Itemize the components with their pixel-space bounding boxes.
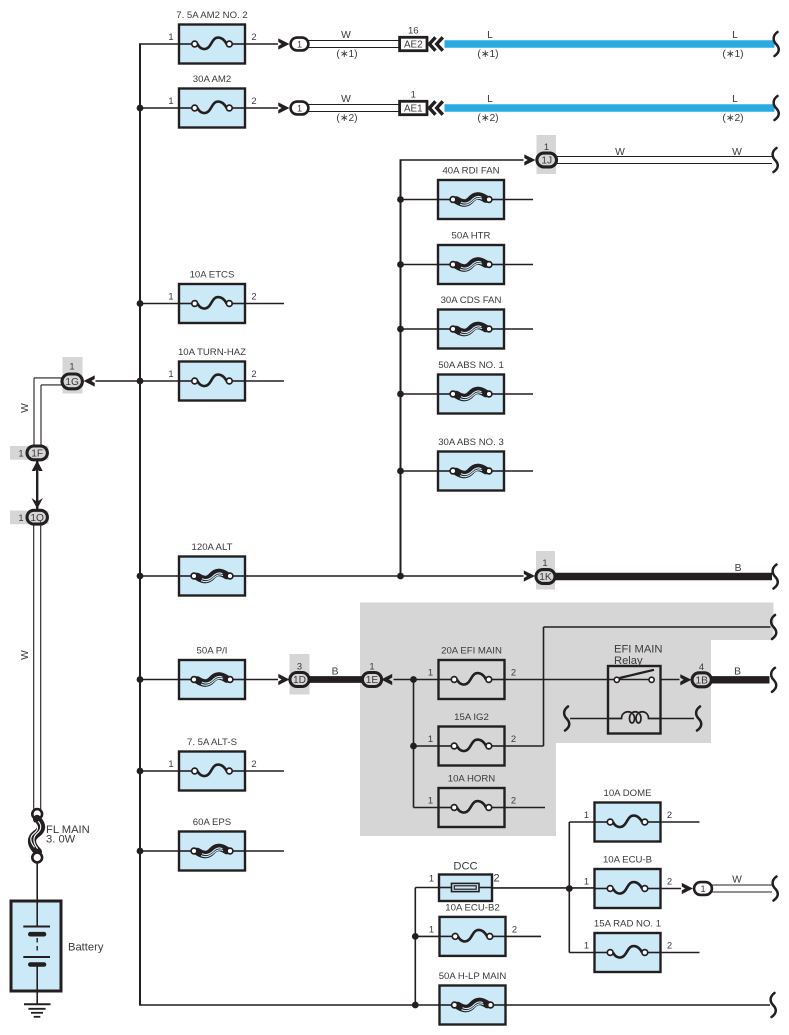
wire 7.5A AM2 NO.2 pin2 to connector (245, 43, 278, 45)
wire DCC pin2 to 10A ECU-B pin1 (492, 887, 595, 889)
svg-text:4: 4 (699, 661, 704, 672)
svg-text:1: 1 (429, 873, 434, 884)
fuse 40A RDI FAN (438, 166, 504, 220)
relay switch contacts (617, 679, 652, 681)
svg-text:50A ABS NO. 1: 50A ABS NO. 1 (438, 360, 504, 371)
svg-text:(∗1): (∗1) (477, 49, 498, 60)
wire W from 1G down to 1F (34, 377, 62, 379)
junction bus2/50A ABS NO. 1 (397, 391, 404, 398)
wire main battery bus vertical (139, 44, 141, 1005)
svg-text:1: 1 (18, 448, 23, 459)
junction bus2/30A ABS NO. 3 (397, 468, 404, 475)
connector 1J (537, 153, 557, 167)
wire DOME column vertical (568, 822, 570, 953)
wire 10A ETCS pin2 stub (245, 303, 284, 305)
svg-text:1: 1 (69, 361, 74, 372)
connector 1D (290, 673, 309, 687)
svg-text:10A HORN: 10A HORN (448, 774, 496, 785)
wire bus2 to fuse 40A RDI FAN (401, 199, 439, 201)
fuse 50A H-LP MAIN (439, 971, 507, 1025)
wire bus2 to fuse 30A CDS FAN (401, 328, 439, 330)
wire bus2 to fuse 30A ABS NO. 3 (401, 470, 439, 472)
svg-text:15A IG2: 15A IG2 (454, 712, 489, 723)
wire bus1 to fuse 50A P/I (140, 679, 179, 681)
svg-text:W: W (732, 147, 742, 158)
fuse 30A AM2 (168, 74, 256, 128)
wire W to junction AE2 (row1) (309, 40, 400, 42)
svg-text:B: B (735, 563, 742, 574)
fuse 120A ALT (179, 542, 245, 596)
connector 1Q (27, 510, 47, 524)
svg-text:W: W (20, 650, 31, 660)
svg-text:2: 2 (511, 795, 516, 806)
wire relay output to 1B (661, 679, 680, 681)
wire relay coil left lead (570, 718, 608, 720)
wire bus1 to fuse 120A ALT (140, 575, 179, 577)
svg-text:AE1: AE1 (404, 103, 423, 114)
continuation squiggle (1J row) (773, 148, 778, 172)
wire L blue (row2) (445, 104, 775, 111)
connector 1F (27, 446, 47, 460)
shaded engine-room relay block region (360, 603, 774, 837)
svg-text:30A ABS NO. 3: 30A ABS NO. 3 (438, 437, 504, 448)
wire 30A AM2 pin2 to connector (245, 107, 278, 109)
svg-text:1: 1 (168, 31, 173, 42)
svg-text:1: 1 (428, 795, 433, 806)
wire 10A ECU-B2 pin2 stub (506, 935, 542, 937)
relay coil (608, 712, 661, 723)
svg-text:1F: 1F (31, 449, 43, 460)
svg-text:1: 1 (584, 809, 589, 820)
continuation squiggle (row2) (774, 96, 779, 120)
arrow into connector 1J (524, 154, 535, 165)
connector 1Q gray backing (10, 511, 49, 525)
svg-text:1: 1 (297, 104, 302, 114)
wire branch to 10A DOME pin1 (569, 821, 594, 823)
connector 1 (row1) (291, 38, 309, 51)
svg-text:EFI MAIN: EFI MAIN (614, 644, 662, 656)
wire B thick (1K row) (555, 573, 772, 580)
fusible link FL MAIN 3.0W (31, 809, 90, 862)
svg-text:50A HTR: 50A HTR (452, 231, 491, 242)
wire EFI branch vertical (413, 680, 415, 808)
wire 7.5A ALT-S pin2 stub (245, 770, 284, 772)
wire B between 1D and 1E (310, 676, 364, 683)
wire W from ECU-B connector (712, 884, 772, 886)
svg-text:W: W (20, 403, 31, 413)
svg-text:15A RAD NO. 1: 15A RAD NO. 1 (594, 919, 661, 930)
fuse 20A EFI MAIN (428, 646, 516, 700)
svg-text:(∗2): (∗2) (336, 113, 357, 124)
fuse 30A ABS NO. 3 (438, 437, 504, 491)
wire second bus vertical (400, 160, 402, 576)
arrow into connector 1 (row1) (278, 38, 289, 49)
fuse 10A ECU-B (584, 855, 672, 909)
continuation squiggle (ECU-B row) (773, 877, 778, 901)
relay EFI MAIN Relay (608, 644, 662, 734)
wire 50A HTR output stub (504, 264, 533, 266)
svg-text:10A ETCS: 10A ETCS (190, 270, 235, 281)
svg-text:2: 2 (251, 291, 256, 302)
fuse 15A IG2 (428, 712, 516, 766)
svg-text:2: 2 (493, 873, 499, 885)
junction EFI branch top (410, 676, 417, 683)
fuse 50A ABS NO. 1 (438, 360, 504, 414)
svg-text:2: 2 (251, 758, 256, 769)
svg-text:30A CDS FAN: 30A CDS FAN (441, 295, 502, 306)
svg-text:W: W (732, 875, 742, 886)
connector 1J gray backing (537, 135, 557, 174)
junction bus2/40A RDI FAN (397, 196, 404, 203)
svg-text:2: 2 (667, 940, 672, 951)
arrow into connector 1 (row2) (278, 102, 289, 113)
wire 15A RAD NO.1 pin2 stub (661, 952, 700, 954)
svg-text:1: 1 (428, 733, 433, 744)
wire bus1 to fuse 60A EPS (140, 850, 179, 852)
svg-text:AE2: AE2 (404, 39, 423, 50)
wire W from 1Q down to FL MAIN (33, 525, 35, 811)
continuation squiggle (row1) (774, 32, 779, 56)
connector 1G gray backing (63, 357, 83, 394)
wire 10A DOME pin2 stub (661, 821, 700, 823)
svg-text:W: W (341, 94, 351, 105)
wire bus1 to fuse 10A TURN-HAZ pin1 (140, 380, 179, 382)
svg-text:10A ECU-B2: 10A ECU-B2 (445, 902, 499, 913)
svg-text:2: 2 (251, 95, 256, 106)
svg-text:1J: 1J (541, 156, 552, 167)
circuit breaker DCC (429, 861, 500, 902)
connector 1K (536, 570, 555, 584)
svg-text:B: B (332, 667, 339, 678)
junction bus1/120A ALT (137, 573, 144, 580)
continuation squiggle (1B row) (771, 668, 776, 692)
fuse 30A CDS FAN (438, 295, 504, 349)
wire 15A IG2 pin2 up and right (505, 745, 544, 747)
fuse 10A DOME (584, 788, 672, 842)
connector 1E (362, 673, 381, 687)
wire W from 1J (557, 156, 772, 158)
fuse 10A TURN-HAZ (168, 347, 256, 401)
svg-text:120A ALT: 120A ALT (192, 542, 233, 553)
svg-text:1: 1 (544, 141, 549, 152)
connector 1 (row2) (291, 102, 309, 115)
svg-text:1D: 1D (293, 675, 306, 686)
svg-text:Relay: Relay (614, 655, 643, 667)
svg-text:1: 1 (297, 40, 302, 50)
svg-text:40A RDI FAN: 40A RDI FAN (442, 166, 499, 177)
svg-text:7. 5A ALT-S: 7. 5A ALT-S (187, 737, 237, 748)
svg-text:L: L (732, 30, 738, 41)
wire 50A ABS NO. 1 output stub (504, 393, 533, 395)
svg-text:1: 1 (700, 884, 705, 894)
svg-text:60A EPS: 60A EPS (193, 817, 231, 828)
wire W to junction AE1 (row2) (309, 104, 400, 106)
connector 1D gray backing (290, 654, 310, 695)
arrow into connector 1B (680, 674, 691, 685)
svg-text:2: 2 (667, 876, 672, 887)
junction bus1/10A ETCS (137, 300, 144, 307)
wire FL MAIN to battery (36, 863, 38, 901)
svg-text:2: 2 (251, 368, 256, 379)
svg-text:(∗2): (∗2) (477, 113, 498, 124)
junction bus2 bottom / 120A ALT output (397, 573, 404, 580)
wire 50A P/I output to 1D (245, 679, 278, 681)
svg-text:2: 2 (667, 809, 672, 820)
svg-text:1: 1 (428, 667, 433, 678)
svg-text:3. 0W: 3. 0W (46, 834, 76, 846)
chevrons AE2 (429, 37, 435, 50)
arrow into connector 1E (381, 674, 392, 685)
connector 1B (692, 673, 711, 687)
double arrow between 1F and 1Q (36, 461, 38, 509)
junction bus1/10A TURN-HAZ (137, 378, 144, 385)
junction bus1/30A AM2 (137, 105, 144, 112)
ground (24, 1004, 51, 1017)
wire bus1 to fuse 10A ETCS pin1 (140, 303, 179, 305)
svg-text:2: 2 (251, 31, 256, 42)
fuse 10A HORN (428, 774, 516, 828)
svg-text:16: 16 (408, 25, 419, 36)
continuation squiggle (1K row) (773, 565, 778, 589)
wire bus1 bottom to fuse 50A H-LP MAIN (139, 1004, 440, 1006)
svg-text:2: 2 (511, 667, 516, 678)
wire 40A RDI FAN output stub (504, 199, 533, 201)
connector 1K gray backing (536, 551, 555, 590)
junction bus1/60A EPS (137, 848, 144, 855)
svg-text:50A H-LP MAIN: 50A H-LP MAIN (439, 971, 507, 982)
wire bus1 to fuse 7.5A AM2 NO.2 pin1 (139, 43, 179, 45)
fuse 7. 5A ALT-S (168, 737, 256, 791)
wire bus2 top to connector 1J (400, 159, 524, 161)
svg-text:7. 5A AM2 NO. 2: 7. 5A AM2 NO. 2 (176, 10, 247, 21)
fuse 50A P/I (179, 646, 245, 700)
junction bus1/50A P/I (137, 676, 144, 683)
battery (11, 901, 104, 1004)
svg-text:1: 1 (542, 557, 547, 568)
wire 50A H-LP MAIN output (506, 1004, 771, 1006)
arrow into connector 1 (ECU-B) (682, 883, 693, 894)
wire 60A EPS output stub (245, 850, 284, 852)
svg-text:1E: 1E (366, 675, 379, 686)
wire bus2 to fuse 50A HTR (401, 264, 439, 266)
wire branch to 15A RAD NO.1 pin1 (569, 952, 594, 954)
svg-text:1: 1 (429, 923, 434, 934)
svg-text:(∗2): (∗2) (722, 113, 743, 124)
junction bus2/50A HTR (397, 261, 404, 268)
junction DCC branch / ECU-B2 (412, 933, 419, 940)
junction bottom wire / DCC branch (412, 1002, 419, 1009)
continuation squiggle (H-LP row) (771, 993, 776, 1017)
svg-text:(∗1): (∗1) (722, 49, 743, 60)
continuation squiggle (IG2 wire) (771, 615, 776, 639)
junction DOME column / ECU-B row (566, 885, 573, 892)
fuse 60A EPS (179, 817, 245, 871)
wire branch to 10A HORN pin1 (414, 807, 439, 809)
fuse 7. 5A AM2 NO. 2 (168, 10, 256, 64)
svg-text:L: L (487, 94, 493, 105)
wire B thick from 1B (711, 676, 770, 683)
junction connector AE2 (400, 25, 427, 50)
svg-text:50A P/I: 50A P/I (197, 646, 228, 657)
wire relay coil right lead (661, 718, 695, 720)
fuse 15A RAD NO. 1 (584, 919, 672, 973)
wire bus1 to fuse 7.5A ALT-S pin1 (140, 770, 179, 772)
svg-text:30A AM2: 30A AM2 (193, 74, 231, 85)
wire 1E to 20A EFI MAIN pin1 (394, 679, 439, 681)
svg-text:3: 3 (297, 661, 302, 672)
svg-text:1K: 1K (539, 572, 552, 583)
arrow into connector 1K (524, 570, 535, 581)
wire 10A ECU-B pin2 to connector (661, 888, 682, 890)
fuse 10A ETCS (168, 270, 256, 324)
connector 1G (62, 374, 82, 389)
fuse 50A HTR (438, 231, 504, 285)
wire 120A ALT output to 1K (245, 575, 524, 577)
svg-text:(∗1): (∗1) (336, 49, 357, 60)
svg-text:B: B (734, 667, 741, 678)
wire bus1 to connector 1G arrow (96, 380, 141, 382)
connector 1F gray backing (10, 446, 49, 460)
wire L blue (row1) (445, 40, 775, 47)
svg-text:1: 1 (584, 940, 589, 951)
wire 10A HORN pin2 stub (505, 807, 546, 809)
svg-text:1: 1 (584, 876, 589, 887)
svg-text:10A TURN-HAZ: 10A TURN-HAZ (178, 347, 246, 358)
wire 30A ABS NO. 3 output stub (504, 470, 533, 472)
continuation squiggle (coil left) (564, 707, 569, 731)
svg-text:1: 1 (168, 758, 173, 769)
svg-text:20A EFI MAIN: 20A EFI MAIN (441, 646, 502, 657)
junction bus2/30A CDS FAN (397, 326, 404, 333)
svg-text:W: W (615, 147, 625, 158)
wire DCC branch vertical (414, 888, 416, 1006)
wire branch to 10A ECU-B2 pin1 (415, 935, 439, 937)
svg-text:10A DOME: 10A DOME (604, 788, 652, 799)
svg-text:Battery: Battery (68, 942, 104, 954)
svg-text:1: 1 (168, 368, 173, 379)
svg-text:2: 2 (511, 733, 516, 744)
wire branch to 15A IG2 pin1 (414, 745, 439, 747)
svg-text:1: 1 (369, 661, 374, 672)
svg-text:1G: 1G (65, 377, 79, 388)
svg-text:1: 1 (411, 89, 416, 100)
svg-text:1Q: 1Q (30, 513, 44, 524)
wire bus2 to fuse 50A ABS NO. 1 (401, 393, 439, 395)
svg-text:L: L (487, 30, 493, 41)
junction connector AE1 (400, 89, 427, 114)
svg-text:L: L (732, 94, 738, 105)
wire 30A CDS FAN output stub (504, 328, 533, 330)
arrow into connector 1G (84, 375, 95, 386)
svg-text:1: 1 (168, 95, 173, 106)
wire 10A TURN-HAZ pin2 stub (245, 380, 284, 382)
continuation squiggle (coil right) (696, 707, 701, 731)
svg-text:10A ECU-B: 10A ECU-B (603, 855, 652, 866)
svg-text:W: W (341, 30, 351, 41)
wire branch to DCC pin1 (415, 887, 439, 889)
junction EFI branch / 15A IG2 (410, 743, 417, 750)
svg-text:1: 1 (168, 291, 173, 302)
arrow into connector 1D (278, 674, 289, 685)
svg-text:DCC: DCC (453, 861, 477, 873)
junction bus1/7.5A ALT-S (137, 768, 144, 775)
fuse 10A ECU-B2 (429, 902, 517, 956)
chevrons AE1 (429, 101, 435, 114)
connector 1 (ECU-B) (694, 882, 712, 895)
wire bus1 to fuse 30A AM2 pin1 (140, 107, 179, 109)
svg-text:2: 2 (512, 923, 517, 934)
wire 20A EFI MAIN pin2 to relay (505, 679, 615, 681)
svg-text:1B: 1B (695, 676, 708, 687)
svg-text:1: 1 (18, 512, 23, 523)
